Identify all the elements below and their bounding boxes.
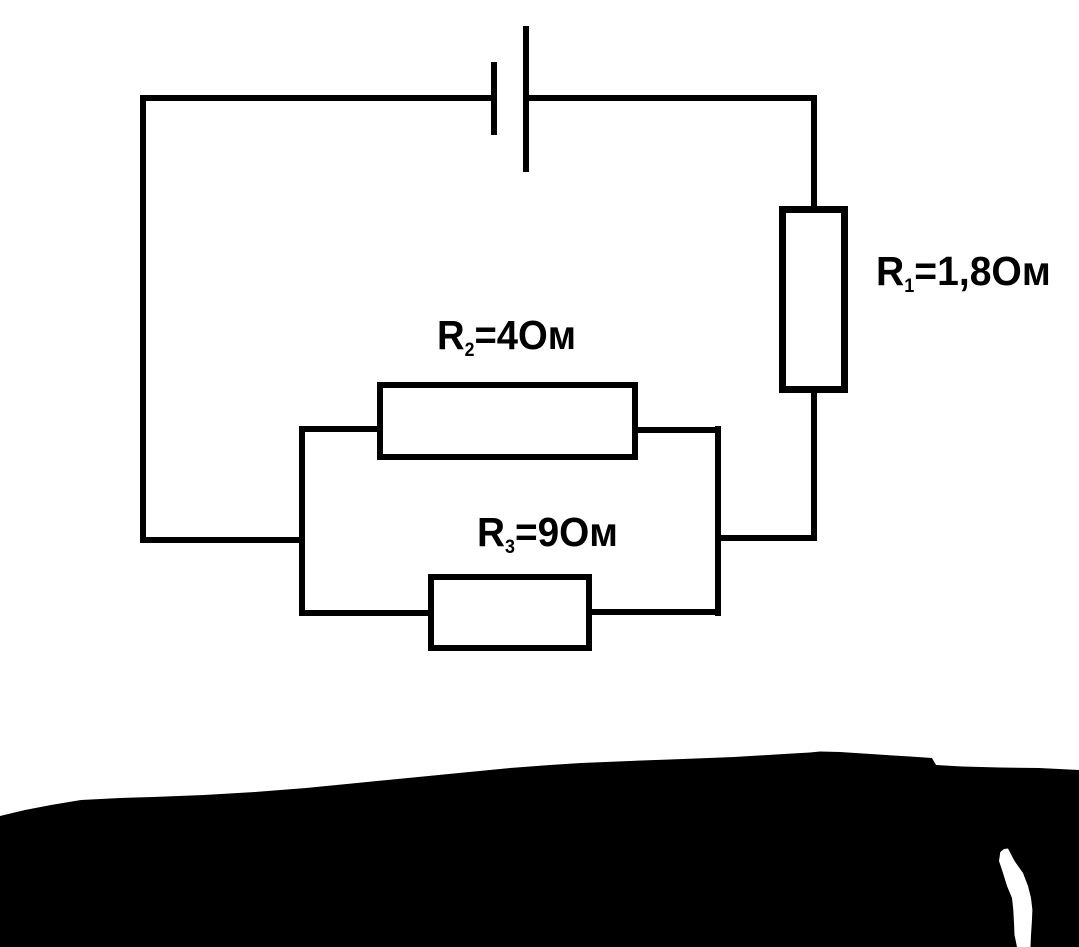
wire: right vertical lower (R1 to middle node) — [811, 390, 817, 541]
white scratch mark inside the blotch (bottom right) — [999, 849, 1032, 947]
wire: parallel-section right vertical (node B) — [715, 426, 721, 616]
wire: left vertical side of main loop — [140, 95, 146, 543]
resistor R2 body — [377, 382, 638, 460]
wire: middle horizontal right connector (node B to R1 branch) — [716, 535, 817, 541]
battery short plate (negative terminal) — [491, 62, 497, 135]
label R1 value: R1=1,8Om — [876, 251, 1051, 292]
battery long plate (positive terminal) — [523, 26, 529, 172]
resistor R3 body — [428, 574, 592, 651]
resistor R1 body — [779, 206, 848, 393]
wire: top branch left lead into R2 — [299, 426, 378, 432]
label R3 value: R3=9Om — [477, 512, 618, 553]
wire: parallel-section left vertical (node A) — [299, 426, 305, 616]
wire: right vertical upper (top wire to R1) — [811, 95, 817, 210]
wire: middle horizontal left connector (left loop to node A) — [140, 537, 305, 543]
wire: top horizontal, left segment (battery left lead) — [140, 95, 494, 101]
wire: bottom branch right lead from R3 — [591, 609, 721, 615]
wire: top horizontal, right segment (battery right lead) — [526, 95, 817, 101]
wire: top branch right lead from R2 — [637, 427, 721, 433]
wire: bottom branch left lead into R3 — [299, 610, 429, 616]
label R2 value: R2=4Om — [437, 315, 576, 356]
